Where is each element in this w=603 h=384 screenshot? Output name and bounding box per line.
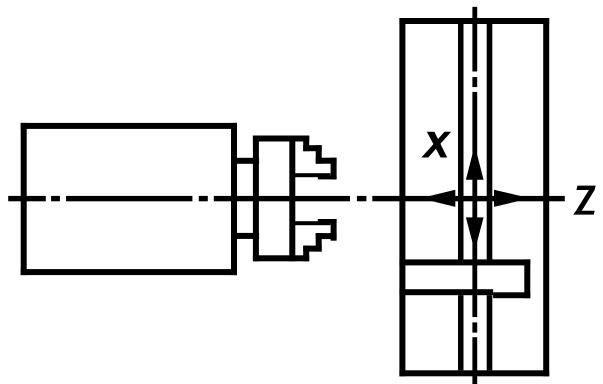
Z axis arrow right	[494, 190, 530, 207]
tool post frame	[399, 18, 549, 376]
X axis arrow down	[466, 217, 484, 251]
label X	[421, 132, 451, 158]
spindle shaft	[231, 158, 259, 239]
centerline X (vertical dash-dot)	[472, 7, 477, 384]
Z axis arrow left	[420, 190, 455, 207]
headstock box	[21, 123, 237, 275]
chuck body	[253, 136, 309, 262]
cross slide bar	[399, 259, 530, 298]
chuck jaw top	[293, 136, 337, 180]
label Z	[573, 186, 595, 215]
tool post inner way left	[458, 24, 464, 370]
tool post inner way right	[487, 24, 493, 370]
X axis arrow up	[466, 145, 484, 180]
chuck jaw bottom	[293, 219, 337, 261]
centerline Z (horizontal dash-dot)	[8, 196, 565, 201]
